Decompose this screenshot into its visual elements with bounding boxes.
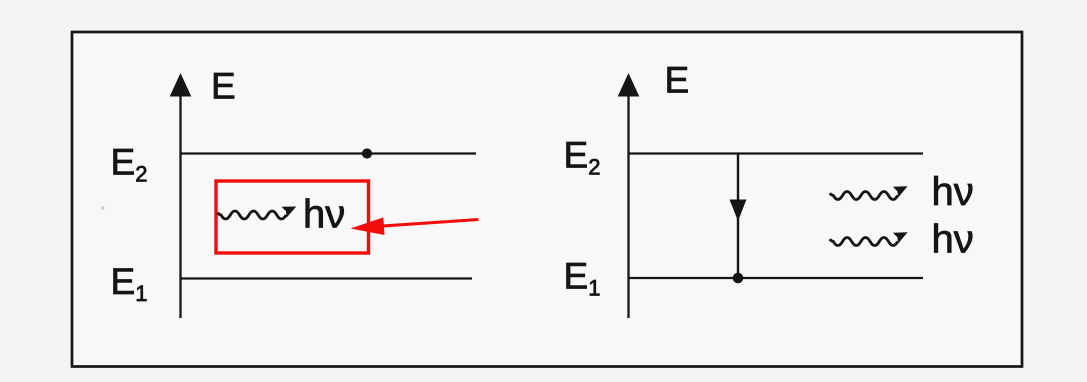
outer frame border <box>72 32 1022 367</box>
incident photon wavy arrow <box>218 211 287 219</box>
red pointer arrow shaft <box>380 220 479 227</box>
svg-text:hν: hν <box>303 193 345 237</box>
svg-text:hν: hν <box>932 170 974 214</box>
emitted photon 1 wavy arrow <box>830 192 898 200</box>
right level line E1 <box>629 277 924 279</box>
right axis arrowhead <box>618 73 640 97</box>
svg-text:hν: hν <box>932 218 974 262</box>
transition downward arrowhead <box>730 200 747 222</box>
incident photon arrowhead <box>282 207 297 218</box>
red highlight box <box>216 181 369 253</box>
electron dot on right E1 level <box>733 273 744 284</box>
svg-text:E: E <box>665 60 690 101</box>
emitted photon 2 wavy arrow <box>830 238 898 246</box>
left level line E1 <box>181 277 473 279</box>
left axis arrowhead <box>170 73 192 97</box>
right energy axis E <box>627 90 629 318</box>
emitted photon 1 arrowhead <box>893 186 908 197</box>
emitted photon 2 arrowhead <box>893 232 908 243</box>
left energy axis E <box>179 90 181 318</box>
left level line E2 <box>181 152 477 154</box>
svg-text:E: E <box>211 66 236 107</box>
electron dot on left E2 level <box>362 148 372 158</box>
red pointer arrowhead <box>351 217 385 235</box>
paper speck <box>101 206 104 209</box>
transition line E2 to E1 <box>737 155 739 279</box>
right level line E2 <box>629 152 924 154</box>
